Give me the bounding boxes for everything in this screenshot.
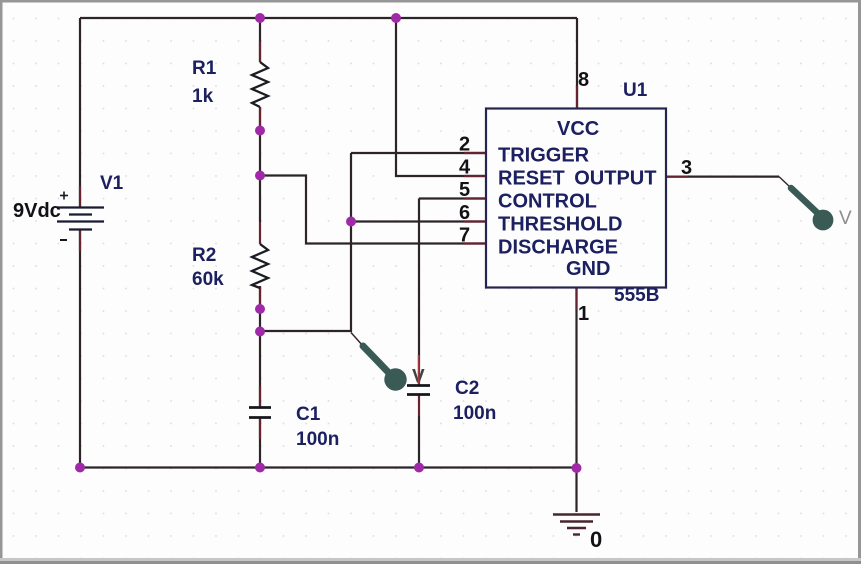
wire pin1/ground	[575, 288, 577, 512]
wire control branch	[419, 197, 486, 199]
svg-text:100n: 100n	[453, 403, 496, 424]
resistor R2	[252, 244, 268, 288]
svg-text:R2: R2	[192, 245, 216, 266]
svg-text:CONTROL: CONTROL	[498, 191, 597, 213]
svg-text:V1: V1	[100, 173, 124, 194]
node discharge junction	[255, 171, 265, 181]
svg-text:8: 8	[578, 69, 589, 91]
wire pin8 drop	[576, 18, 578, 108]
svg-text:C1: C1	[296, 404, 321, 425]
capacitor C2 pins	[418, 364, 420, 385]
svg-text:2: 2	[459, 134, 470, 156]
svg-text:6: 6	[459, 202, 470, 224]
node C2 bottom	[414, 463, 424, 473]
resistor R1 pins	[259, 41, 261, 62]
svg-text:9Vdc: 9Vdc	[13, 200, 61, 222]
node ground	[572, 463, 582, 473]
svg-text:DISCHARGE: DISCHARGE	[498, 237, 618, 259]
wire left rail lower	[79, 230, 81, 468]
wire left rail upper	[79, 18, 81, 208]
svg-text:THRESHOLD: THRESHOLD	[498, 214, 622, 236]
battery plus sign	[60, 192, 68, 200]
svg-text:7: 7	[459, 225, 470, 247]
svg-text:1: 1	[578, 303, 589, 325]
node R1 bottom	[255, 126, 265, 136]
probe 1 (middle voltage probe)	[351, 333, 407, 391]
svg-text:V: V	[839, 208, 852, 229]
IC pin leads	[464, 152, 486, 154]
wire discharge branch	[260, 176, 486, 244]
svg-text:U1: U1	[623, 80, 648, 101]
node C1 bottom	[255, 463, 265, 473]
svg-text:1k: 1k	[192, 86, 214, 107]
node bottom left	[75, 463, 85, 473]
pin stubs dark red	[80, 41, 688, 439]
IC U1 box	[486, 109, 666, 288]
svg-text:555B: 555B	[614, 285, 659, 306]
wire top rail	[80, 17, 577, 19]
wire output pin3	[666, 176, 779, 178]
node top R1	[255, 13, 265, 23]
svg-text:TRIGGER: TRIGGER	[498, 145, 590, 167]
svg-text:GND: GND	[566, 258, 610, 280]
resistor R2 pins	[259, 222, 261, 244]
wire reset branch	[396, 18, 486, 176]
wire bottom rail	[80, 466, 577, 468]
wire trigger/threshold branch	[260, 153, 351, 331]
node top reset	[391, 13, 401, 23]
probe 2 (output voltage probe)	[779, 177, 833, 231]
svg-text:VCC: VCC	[557, 118, 599, 140]
svg-text:RESET OUTPUT: RESET OUTPUT	[498, 168, 656, 190]
svg-text:5: 5	[459, 179, 470, 201]
battery V1	[57, 208, 104, 230]
capacitor C2	[407, 386, 430, 395]
battery minus sign	[60, 239, 67, 241]
red marker stub at C2	[418, 355, 420, 384]
wire R-chain column	[259, 18, 261, 62]
svg-text:3: 3	[681, 157, 692, 179]
svg-text:0: 0	[590, 527, 602, 552]
svg-text:60k: 60k	[192, 269, 224, 290]
capacitor C1 pins	[259, 386, 261, 407]
ground symbol	[553, 515, 600, 535]
svg-text:R1: R1	[192, 58, 217, 79]
svg-text:C2: C2	[455, 378, 479, 399]
capacitor C1	[249, 408, 271, 418]
resistor R1	[252, 62, 268, 107]
node R2 bottom	[255, 304, 265, 314]
battery V1 pins	[79, 186, 81, 207]
node threshold	[346, 217, 356, 227]
svg-text:100n: 100n	[296, 429, 339, 450]
svg-text:4: 4	[459, 157, 471, 179]
node R2-C1 junction	[255, 327, 265, 337]
